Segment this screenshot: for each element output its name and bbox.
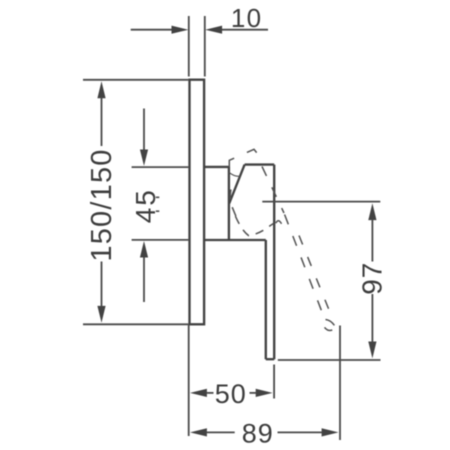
wall plate (side view): [190, 80, 205, 325]
dim 45: bottom arrow (pointing up): [143, 257, 145, 303]
dim 150/150: bottom extension line: [83, 323, 188, 325]
dim 89: right extension line: [339, 326, 341, 441]
valve body top edge: [204, 166, 229, 168]
handle head diagonal: [229, 165, 244, 204]
dim 97: top arrow (pointing up): [368, 203, 376, 220]
dim 45: top extension line: [132, 166, 189, 168]
valve body left edge: [228, 167, 230, 240]
dim 97: top reference line: [262, 201, 380, 203]
dashed handle head left corner: [229, 149, 258, 167]
dim 50: right arrow (pointing right): [256, 389, 273, 397]
dashed lever tip cap: [325, 320, 336, 331]
dim 45: stub marks: [156, 197, 160, 211]
dim 10: right extension line: [204, 16, 206, 77]
dim 10: left arrow: [131, 29, 173, 31]
dim 150/150: bottom arrow: [97, 306, 105, 323]
dashed lever right line: [299, 236, 334, 322]
dim 10: right arrow: [222, 29, 269, 31]
handle right edge: [273, 165, 275, 360]
handle lever left edge: [265, 240, 267, 359]
dim 89: left extension line (below plate): [188, 325, 190, 436]
dim 10: left extension line: [188, 16, 190, 77]
dim 50: right extension line: [273, 365, 275, 399]
svg-text:97: 97: [357, 262, 388, 295]
dashed lever shoulder hook: [276, 221, 282, 224]
dashed handle head right edge: [262, 167, 284, 214]
handle lever bottom end: [266, 358, 274, 360]
svg-text:89: 89: [242, 418, 274, 448]
dim 50: left arrow (pointing left): [190, 389, 207, 397]
dim 45: bottom extension line: [132, 239, 189, 241]
dim 97: bottom reference line: [278, 359, 381, 361]
dim 45: top arrow (pointing down): [143, 109, 145, 151]
dim 89: right arrow (pointing right): [322, 428, 339, 436]
svg-text:150/150: 150/150: [86, 148, 118, 261]
handle head top edge: [245, 163, 275, 165]
dim 150/150: top arrow: [97, 81, 105, 98]
svg-text:45: 45: [130, 188, 161, 223]
dim 89: left arrow (pointing left): [190, 428, 207, 436]
valve body bottom edge: [204, 239, 266, 241]
dashed handle head lower-left edge: [230, 190, 236, 217]
svg-text:10: 10: [231, 3, 262, 33]
dim 150/150: top extension line: [83, 79, 188, 81]
handle joint arc: [229, 172, 240, 176]
dashed lever left line: [284, 213, 325, 319]
dashed handle head bottom edge: [235, 216, 273, 236]
dim 97: bottom arrow (pointing down): [368, 342, 376, 359]
svg-text:50: 50: [215, 379, 247, 409]
